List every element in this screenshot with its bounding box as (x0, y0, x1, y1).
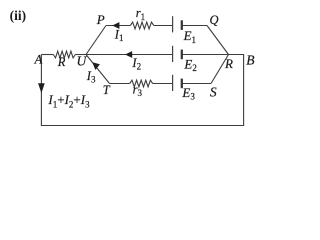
wire left vertical A to bottom-left corner (40, 55, 42, 126)
wire battery E2 to node R and B (182, 54, 244, 56)
battery E3 plates (173, 75, 182, 91)
wire diagonal S to node R (211, 55, 229, 84)
svg-text:R: R (224, 56, 233, 71)
svg-text:S: S (210, 84, 217, 99)
wire diagonal U to T (86, 55, 110, 84)
wire A to resistor R (41, 54, 53, 56)
svg-text:R: R (57, 55, 66, 69)
battery E2 plates (173, 46, 182, 62)
wire bottom (41, 125, 244, 127)
resistor r3 (130, 80, 153, 87)
svg-text:P: P (96, 12, 105, 27)
wire R to node U (75, 54, 86, 56)
wire r3 to battery E3 (153, 83, 173, 85)
arrow I3 on diagonal U-T (points up-left) (92, 62, 100, 70)
wire T to resistor r3 (110, 83, 130, 85)
arrow I1 on top wire (points left) (112, 22, 119, 29)
arrow I2 on middle wire (points left) (125, 51, 132, 58)
svg-text:T: T (103, 83, 111, 97)
svg-text:B: B (246, 53, 254, 68)
resistor r1 (130, 22, 154, 29)
resistor R (53, 51, 75, 58)
battery E1 plates (173, 16, 182, 32)
arrow I1+I2+I3 on left wire (points down) (38, 83, 45, 93)
wire right vertical B side (243, 55, 245, 126)
wire diagonal U to P (86, 26, 106, 55)
wire middle branch U to battery E2 (86, 54, 173, 56)
wire P to resistor r1 (106, 25, 130, 27)
wire diagonal Q to node R (207, 26, 229, 55)
svg-text:(ii): (ii) (10, 8, 27, 23)
wire battery E3 to S (182, 83, 211, 85)
svg-text:Q: Q (210, 13, 219, 27)
svg-text:U: U (77, 54, 88, 69)
wire r1 to battery E1 (154, 25, 173, 27)
svg-text:A: A (34, 53, 43, 67)
wire battery E1 to Q (182, 25, 207, 27)
